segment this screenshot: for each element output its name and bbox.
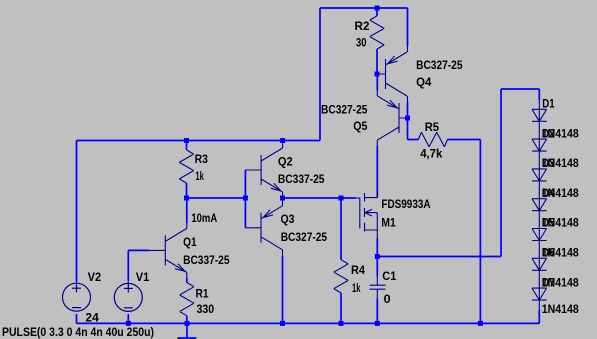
svg-text:30: 30 (356, 36, 367, 50)
svg-text:0: 0 (384, 292, 391, 306)
svg-text:R3: R3 (195, 152, 209, 166)
svg-text:D3: D3 (542, 156, 555, 170)
svg-text:R4: R4 (351, 263, 365, 277)
svg-text:Q4: Q4 (416, 75, 432, 89)
svg-text:Q5: Q5 (353, 119, 367, 133)
svg-text:10mA: 10mA (191, 211, 217, 225)
svg-text:4,7k: 4,7k (420, 147, 442, 161)
svg-text:1k: 1k (195, 169, 204, 183)
svg-text:V2: V2 (88, 270, 102, 284)
svg-text:D7: D7 (542, 275, 555, 289)
svg-text:BC327-25: BC327-25 (416, 58, 463, 72)
svg-text:BC327-25: BC327-25 (321, 103, 368, 117)
svg-text:1k: 1k (352, 281, 361, 295)
svg-text:BC337-25: BC337-25 (278, 172, 325, 186)
svg-text:D5: D5 (542, 216, 555, 230)
svg-text:FDS9933A: FDS9933A (381, 197, 430, 211)
svg-text:BC337-25: BC337-25 (183, 253, 230, 267)
svg-text:330: 330 (197, 302, 215, 316)
svg-text:1N4148: 1N4148 (542, 302, 579, 316)
svg-text:24: 24 (85, 311, 99, 325)
svg-text:M1: M1 (381, 215, 396, 229)
svg-text:Q1: Q1 (183, 235, 197, 249)
svg-text:D4: D4 (542, 186, 555, 200)
svg-text:D6: D6 (542, 246, 555, 260)
svg-text:V1: V1 (136, 270, 150, 284)
svg-text:R2: R2 (355, 19, 370, 33)
svg-text:R1: R1 (196, 287, 209, 301)
svg-text:Q2: Q2 (278, 155, 293, 169)
svg-text:C1: C1 (382, 269, 396, 283)
svg-text:R5: R5 (425, 120, 440, 134)
svg-text:BC327-25: BC327-25 (281, 230, 328, 244)
svg-text:D2: D2 (542, 126, 555, 140)
svg-text:Q3: Q3 (281, 212, 295, 226)
svg-text:D1: D1 (542, 97, 555, 111)
svg-text:PULSE(0 3.3 0 4n 4n 40u 250u): PULSE(0 3.3 0 4n 4n 40u 250u) (2, 325, 154, 339)
